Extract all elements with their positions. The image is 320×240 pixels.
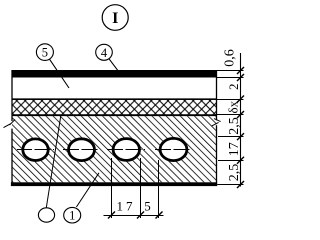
cross-hatch bottom boundary / slab top line	[12, 114, 217, 116]
bottom horizontal dimension line	[104, 215, 164, 217]
right vertical dimension line	[240, 53, 242, 187]
svg-text:0,6: 0,6	[223, 49, 238, 67]
svg-text:4: 4	[101, 46, 108, 60]
right dimension extension line y=77.5	[217, 77, 244, 79]
layer 3: insulation cross-hatch band	[12, 100, 217, 114]
void circle 2	[63, 139, 100, 161]
svg-text:2,5: 2,5	[227, 164, 242, 182]
layer 1: hollow-core slab hatched body	[12, 116, 217, 182]
bottom extension line x=111.5	[111, 158, 113, 218]
detail mark circle I	[102, 5, 128, 31]
right dimension extension line y=114.5	[217, 114, 244, 116]
slab left edge line	[11, 70, 13, 121]
callout circle 5	[36, 44, 53, 61]
leader 5	[50, 59, 69, 88]
layer 4: top black band (waterproofing)	[12, 70, 217, 78]
callout circle 4	[96, 44, 113, 60]
callout circle 1	[64, 207, 81, 223]
bottom thick black line of slab	[11, 182, 217, 186]
right dimension extension line y=70.5	[217, 70, 244, 72]
right dimension extension line y=99	[217, 99, 244, 101]
svg-text:17: 17	[227, 142, 242, 156]
svg-text:δx: δx	[226, 100, 241, 113]
leader 1	[76, 173, 99, 207]
svg-text:I: I	[112, 10, 118, 27]
svg-text:2: 2	[226, 84, 241, 91]
void circle 3	[107, 139, 145, 161]
leader 4	[109, 59, 118, 70]
svg-text:2,5: 2,5	[227, 117, 242, 135]
bottom extension line x=159	[158, 160, 160, 218]
ticks on bottom dimension line	[108, 212, 163, 219]
layer 5: screed white layer bottom boundary	[12, 98, 217, 100]
slab right edge line	[216, 70, 218, 120]
leader of empty callout	[46, 115, 61, 208]
tick marks on right dimension line	[237, 67, 244, 188]
left break mark	[4, 120, 16, 128]
bottom extension line x=140.5	[140, 158, 142, 218]
empty callout circle	[38, 208, 54, 222]
right dimension extension line y=160.3	[218, 160, 244, 162]
right dimension extension line y=184.5	[217, 184, 243, 186]
svg-text:5: 5	[42, 46, 48, 60]
right dimension extension line y=136.6	[218, 136, 244, 138]
void circle 4	[155, 138, 192, 160]
svg-text:5: 5	[144, 199, 151, 214]
right break mark	[211, 119, 220, 127]
svg-text:1: 1	[69, 209, 75, 223]
void circle 1	[17, 139, 54, 161]
svg-text:17: 17	[117, 199, 136, 214]
